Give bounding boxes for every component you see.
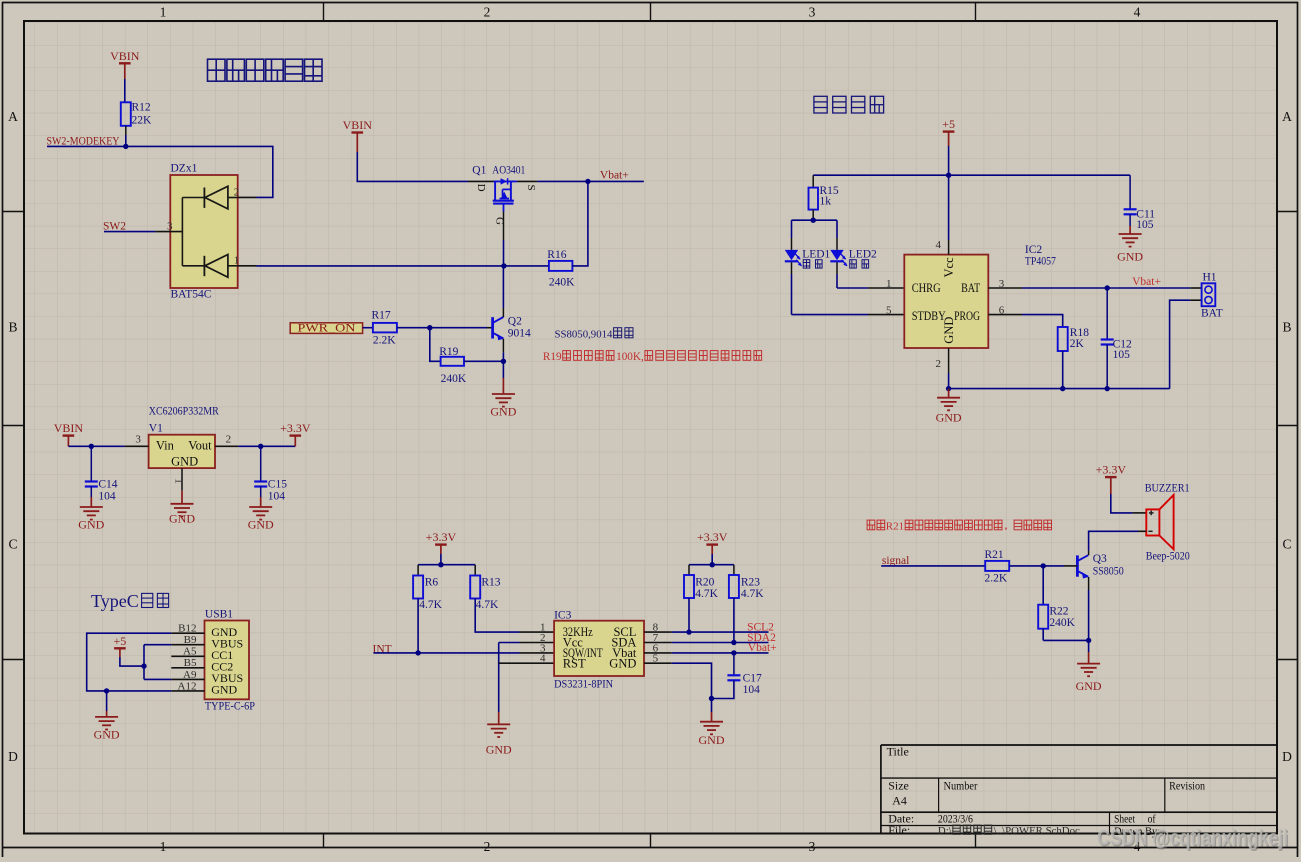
- svg-text:LED2: LED2: [849, 248, 877, 260]
- svg-text:Revision: Revision: [1169, 779, 1205, 793]
- svg-text:GND: GND: [171, 455, 198, 469]
- svg-text:4.7K: 4.7K: [695, 588, 718, 600]
- svg-text:GND: GND: [94, 728, 120, 742]
- svg-text:4.7K: 4.7K: [741, 588, 764, 600]
- svg-text:GND: GND: [609, 656, 636, 670]
- svg-text:4: 4: [1134, 5, 1141, 20]
- svg-text:4: 4: [936, 239, 942, 251]
- svg-text:PWR_ON: PWR_ON: [298, 323, 357, 335]
- svg-text:R12: R12: [132, 102, 151, 114]
- svg-text:V1: V1: [149, 423, 163, 435]
- svg-text:Q3: Q3: [1093, 553, 1107, 565]
- svg-text:+3.3V: +3.3V: [697, 530, 728, 544]
- svg-text:2: 2: [936, 358, 942, 370]
- svg-text:C17: C17: [743, 673, 762, 685]
- svg-text:1: 1: [160, 839, 167, 854]
- svg-text:+3.3V: +3.3V: [1096, 463, 1127, 477]
- svg-text:S: S: [525, 184, 537, 190]
- svg-text:TYPE-C-6P: TYPE-C-6P: [205, 701, 255, 713]
- svg-text:R23: R23: [741, 577, 760, 589]
- svg-text:D: D: [475, 184, 487, 192]
- svg-text:GND: GND: [1117, 250, 1143, 264]
- svg-text:C: C: [1282, 537, 1291, 552]
- svg-text:\..\POWER.SchDoc: \..\POWER.SchDoc: [994, 825, 1080, 837]
- svg-text:Beep-5020: Beep-5020: [1146, 551, 1190, 563]
- svg-text:240K: 240K: [1049, 617, 1075, 629]
- svg-text:GND: GND: [169, 512, 195, 526]
- svg-text:R22: R22: [1049, 606, 1068, 618]
- svg-text:BUZZER1: BUZZER1: [1145, 483, 1190, 495]
- svg-text:3: 3: [809, 5, 816, 20]
- svg-text:AO3401: AO3401: [492, 164, 525, 176]
- svg-text:Vbat+: Vbat+: [600, 170, 629, 182]
- svg-text:2: 2: [226, 434, 232, 446]
- svg-text:2: 2: [484, 839, 491, 854]
- svg-text:5: 5: [886, 305, 892, 317]
- svg-text:SS8050: SS8050: [1093, 566, 1124, 578]
- svg-text:R21: R21: [886, 521, 904, 533]
- svg-text:2: 2: [484, 5, 491, 20]
- svg-text:LED1: LED1: [802, 248, 830, 260]
- svg-text:1k: 1k: [820, 196, 832, 208]
- svg-text:D: D: [8, 749, 18, 764]
- svg-text:R19: R19: [543, 351, 562, 363]
- svg-text:PROG: PROG: [954, 309, 980, 323]
- svg-text:GND: GND: [936, 411, 962, 425]
- svg-text:4.7K: 4.7K: [476, 599, 499, 611]
- svg-text:1: 1: [160, 5, 167, 20]
- svg-text:GND: GND: [490, 405, 516, 419]
- svg-text:STDBY: STDBY: [912, 309, 946, 323]
- svg-text:B12: B12: [178, 623, 196, 635]
- svg-text:GND: GND: [699, 733, 725, 747]
- svg-text:Vbat+: Vbat+: [1132, 276, 1161, 288]
- svg-text:B: B: [8, 320, 17, 335]
- svg-text:R21: R21: [985, 549, 1004, 561]
- svg-text:SW2: SW2: [103, 220, 126, 232]
- svg-text:104: 104: [98, 491, 116, 503]
- svg-text:A4: A4: [892, 794, 907, 808]
- svg-text:2K: 2K: [1070, 338, 1085, 350]
- svg-text:VBIN: VBIN: [110, 49, 140, 63]
- svg-text:G: G: [493, 217, 505, 225]
- svg-text:R13: R13: [481, 577, 500, 589]
- svg-text:BAT54C: BAT54C: [171, 289, 212, 301]
- svg-text:A: A: [1282, 109, 1292, 124]
- svg-text:A9: A9: [183, 669, 197, 681]
- svg-text:VBIN: VBIN: [343, 118, 373, 132]
- svg-text:4.7K: 4.7K: [419, 599, 442, 611]
- svg-text:GND: GND: [942, 317, 956, 344]
- svg-text:240K: 240K: [441, 373, 467, 385]
- svg-text:Vcc: Vcc: [942, 257, 956, 278]
- svg-text:C14: C14: [98, 479, 117, 491]
- svg-text:IC2: IC2: [1025, 244, 1043, 256]
- svg-text:TP4057: TP4057: [1025, 256, 1056, 268]
- svg-text:USB1: USB1: [205, 609, 233, 621]
- svg-text:Number: Number: [944, 779, 978, 793]
- svg-text:SS8050,9014: SS8050,9014: [555, 329, 613, 341]
- svg-text:2.2K: 2.2K: [373, 335, 396, 347]
- svg-text:Vin: Vin: [156, 439, 175, 453]
- svg-text:100K,: 100K,: [616, 351, 644, 363]
- svg-text:R19: R19: [439, 346, 458, 358]
- svg-text:Size: Size: [888, 779, 909, 793]
- svg-text:IC3: IC3: [554, 610, 572, 622]
- svg-text:Vbat+: Vbat+: [748, 642, 777, 654]
- svg-text:VBIN: VBIN: [54, 421, 84, 435]
- svg-text:2023/3/6: 2023/3/6: [938, 812, 973, 826]
- svg-text:1: 1: [172, 478, 184, 484]
- svg-text:2: 2: [234, 187, 240, 199]
- svg-text:+3.3V: +3.3V: [426, 530, 457, 544]
- svg-text:Q1: Q1: [472, 164, 486, 176]
- svg-text:A12: A12: [178, 680, 197, 692]
- svg-text:GND: GND: [1076, 679, 1102, 693]
- svg-text:H1: H1: [1203, 272, 1217, 284]
- svg-text:4: 4: [540, 653, 546, 665]
- svg-text:1: 1: [234, 255, 240, 267]
- svg-text:3: 3: [809, 839, 816, 854]
- svg-text:9014: 9014: [508, 328, 531, 340]
- svg-text:D:\: D:\: [938, 825, 952, 837]
- svg-text:+5: +5: [942, 117, 955, 131]
- svg-text:Title: Title: [887, 745, 909, 759]
- svg-text:DS3231-8PIN: DS3231-8PIN: [554, 679, 614, 691]
- svg-text:2.2K: 2.2K: [985, 573, 1008, 585]
- svg-text:+3.3V: +3.3V: [280, 421, 311, 435]
- svg-text:105: 105: [1136, 219, 1154, 231]
- svg-text:A: A: [8, 109, 18, 124]
- svg-text:GND: GND: [248, 518, 274, 532]
- svg-text:GND: GND: [78, 518, 104, 532]
- svg-text:R16: R16: [547, 249, 566, 261]
- svg-text:104: 104: [268, 491, 286, 503]
- svg-text:GND: GND: [486, 743, 512, 757]
- svg-text:R6: R6: [425, 577, 439, 589]
- svg-text:C: C: [8, 537, 17, 552]
- svg-text:240K: 240K: [549, 277, 575, 289]
- svg-text:D: D: [1282, 749, 1292, 764]
- svg-text:22K: 22K: [132, 115, 153, 127]
- svg-text:BAT: BAT: [1201, 308, 1223, 320]
- svg-text:B5: B5: [184, 657, 197, 669]
- svg-text:XC6206P332MR: XC6206P332MR: [149, 406, 219, 418]
- svg-text:C15: C15: [268, 479, 287, 491]
- svg-text:R20: R20: [695, 577, 714, 589]
- svg-text:Vout: Vout: [188, 439, 212, 453]
- svg-text:A5: A5: [183, 646, 197, 658]
- svg-text:3: 3: [135, 434, 141, 446]
- svg-text:File:: File:: [888, 823, 910, 837]
- svg-text:B: B: [1282, 320, 1291, 335]
- svg-text:R17: R17: [372, 310, 391, 322]
- svg-text:+5: +5: [114, 634, 127, 648]
- svg-text:DZx1: DZx1: [171, 163, 198, 175]
- svg-text:Q2: Q2: [508, 316, 522, 328]
- svg-text:GND: GND: [211, 683, 237, 697]
- svg-text:105: 105: [1113, 349, 1131, 361]
- svg-text:TypeC: TypeC: [91, 591, 139, 611]
- svg-text:1: 1: [886, 278, 892, 290]
- svg-text:CSDN @cqtianxingkeji: CSDN @cqtianxingkeji: [1097, 825, 1288, 850]
- svg-text:BAT: BAT: [961, 281, 980, 295]
- svg-text:B9: B9: [184, 634, 197, 646]
- svg-text:CHRG: CHRG: [912, 281, 941, 295]
- svg-text:RST: RST: [563, 656, 586, 670]
- svg-text:3: 3: [167, 220, 173, 232]
- svg-text:104: 104: [743, 684, 761, 696]
